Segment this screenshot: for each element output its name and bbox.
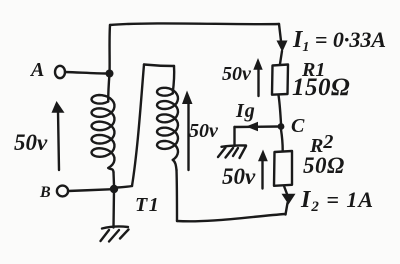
svg-text:I2 = 1A: I2 = 1A (300, 187, 374, 215)
wire terminal B to junction (68, 189, 110, 191)
node B junction (110, 185, 118, 193)
wire node B to ground (112, 189, 115, 228)
wire junction A to primary coil (108, 74, 109, 102)
wire terminal A to junction (65, 72, 106, 74)
wire primary bottom to node B (112, 172, 115, 186)
wire secondary top (144, 65, 174, 67)
ground below B (101, 227, 129, 242)
transformer T1 primary winding (92, 95, 115, 172)
voltage arrow 50v across R1 (253, 58, 262, 96)
svg-text:50Ω: 50Ω (303, 153, 345, 178)
node A junction (106, 70, 114, 78)
terminal B circle (57, 186, 68, 197)
wire I2 arrow to bottom wire (286, 203, 288, 215)
svg-text:50v: 50v (14, 130, 48, 155)
wire node C to R2 (281, 130, 283, 151)
svg-text:50v: 50v (222, 63, 252, 85)
transformer T1 secondary winding (157, 88, 178, 170)
wire top from node above A to R1 branch (110, 23, 279, 25)
wire left vertical from top wire to node A (108, 25, 111, 74)
resistor R2 body (274, 151, 292, 186)
svg-text:I1 = 0·33A: I1 = 0·33A (292, 27, 386, 55)
wire bottom from secondary to R2 branch (177, 214, 286, 221)
svg-text:T1: T1 (135, 194, 160, 216)
voltage arrow 50v across A-B (52, 101, 65, 170)
resistor R1 body (272, 65, 288, 95)
terminal A circle (55, 66, 65, 78)
wire secondary left slant up (132, 65, 144, 187)
node C junction (278, 123, 285, 130)
svg-text:Ig: Ig (235, 100, 256, 122)
wire secondary bottom down (175, 170, 178, 221)
wire R2 to I2 arrow (284, 186, 287, 194)
current arrow I1 down (277, 41, 288, 53)
svg-text:A: A (29, 59, 44, 81)
current arrow Ig from node C to ground (235, 122, 280, 146)
svg-text:50v: 50v (189, 120, 219, 142)
wire top right corner down to I1 arrow (279, 24, 281, 41)
ground below Ig (218, 145, 246, 158)
wire R1 to node C (279, 95, 282, 124)
voltage arrow 50v across secondary (182, 91, 193, 171)
svg-text:C: C (291, 115, 305, 137)
current arrow I2 down (282, 194, 296, 205)
svg-text:150Ω: 150Ω (292, 74, 350, 101)
voltage arrow 50v across R2 (258, 150, 268, 189)
svg-text:50v: 50v (222, 164, 256, 189)
svg-text:B: B (39, 184, 51, 201)
wire node B to secondary bottom-left (117, 186, 132, 188)
wire top corner down to secondary coil (173, 66, 174, 93)
wire I1 arrow to R1 (280, 51, 282, 64)
